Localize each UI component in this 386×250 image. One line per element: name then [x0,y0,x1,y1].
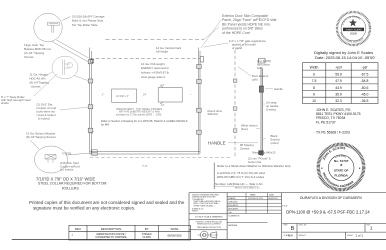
title block frame [189,193,386,240]
svg-text:of the HDPE Core: of the HDPE Core [222,31,250,35]
title block sec1: tolerance notes [192,194,221,212]
REV table [69,225,191,240]
elevation: top dashed line (door top) [90,58,200,60]
svg-text:WEIGHT:: WEIGHT: [299,235,307,237]
leader: steel roller to detail [34,74,57,96]
elevation: right track (double line) [198,48,200,154]
note: lift strap [266,100,279,111]
svg-text:& swing: & swing [266,107,276,111]
note: tapping screws [240,143,254,151]
svg-text:Number: HANDLE HC — Side 1 AC: Number: HANDLE HC — Side 1 AC [215,182,264,186]
svg-text:06/09/2025: 06/09/2025 [268,198,277,200]
section bottom bar dark [258,150,263,155]
svg-text:(p/b): (p/b) [252,78,258,82]
note: hinges [29,73,49,89]
svg-text:+psf: +psf [335,65,342,69]
svg-text:-67.5: -67.5 [361,72,369,76]
svg-text:7/16"ID: 7/16"ID [62,152,71,156]
svg-text:1": 1" [102,94,104,97]
svg-text:Screws: Screws [24,55,34,59]
svg-text:ENG APPR.: ENG APPR. [228,204,239,207]
svg-text:& locked): & locked) [38,117,50,121]
svg-text:VIEWED AS NON-CURRENT: VIEWED AS NON-CURRENT [197,223,222,226]
svg-text:10: 10 [312,99,316,103]
svg-text:OLSON: OLSON [143,236,152,239]
svg-text:9: 9 [313,93,315,97]
svg-text:JOHN E. SCATES: JOHN E. SCATES [345,28,362,31]
note: stud coupler interior [60,161,80,172]
section view: door edge line [259,59,266,157]
svg-text:STEVEN OLSON: STEVEN OLSON [248,198,263,200]
svg-text:(liner): (liner) [241,127,248,131]
svg-text:THIRD ANGLE PROJECTION: THIRD ANGLE PROJECTION [197,226,222,229]
leader: angle brace [204,42,247,50]
svg-text:-50.6: -50.6 [361,86,369,90]
note: pull-weight block [141,62,169,79]
svg-text:*MH mm with it 4/8/25 in 2.2: *MH mm with it 4/8/25 in 2.2 [235,186,261,189]
note: steel roller [1,95,31,105]
hinges on left track [88,60,93,132]
note: stud couplers [37,103,57,121]
note: angle brace [229,39,266,50]
svg-text:Screws: Screws [240,147,250,151]
svg-text:B: B [291,226,295,232]
note: carriage bolts (top) [72,15,105,27]
window rect R2 [158,86,182,105]
note: refer to section 2 [101,119,188,126]
svg-text:DO NOT SCALE DRAWING: DO NOT SCALE DRAWING [195,216,223,219]
svg-text:REV: REV [75,227,81,231]
svg-text:-36.5: -36.5 [361,99,369,103]
svg-text:CHECKED: CHECKED [228,202,238,204]
window rect R1 [112,89,137,102]
svg-text:12": 12" [161,84,165,87]
svg-text:TITLE:: TITLE: [282,205,288,207]
svg-text:47.9: 47.9 [335,79,342,83]
svg-text:COMMENTS:: COMMENTS: [228,216,240,218]
svg-text:1 of 1: 1 of 1 [356,234,364,238]
pressure table [303,63,379,104]
svg-text:insulated to 3.75in panels (EP: insulated to 3.75in panels (EPS ... C45) [116,112,162,116]
svg-text:56308: 56308 [350,33,357,36]
svg-text:full height: full height [156,49,168,53]
svg-text:BY: BY [145,227,149,231]
svg-text:Handle: Handle [274,87,283,91]
section: torsion marks on dashed line [233,79,237,132]
note: vertical track full height [156,46,182,53]
svg-text:940x13+: 940x13+ [208,112,219,116]
detail bubble D1b (roller hinge detail) [42,56,92,82]
note: exterior door skin composite [222,14,277,35]
svg-text:Width: Width [310,65,319,69]
svg-text:32.3: 32.3 [335,99,342,103]
svg-text:24": 24" [143,94,147,97]
svg-text:FLORIDA: FLORIDA [335,174,349,178]
svg-text:06/09/2025: 06/09/2025 [168,234,182,238]
svg-text:Wear Strip 940x13: Wear Strip 940x13 [252,151,276,155]
svg-text:7.5: 7.5 [312,79,317,83]
address block [316,108,361,125]
svg-text:shafts: shafts [1,101,9,105]
svg-text:12": 12" [161,104,165,107]
note: black exterior [271,134,281,145]
dashed floor line extending right [90,157,232,159]
svg-text:bolts: bolts [257,66,264,70]
svg-text:No. 51737: No. 51737 [334,159,349,163]
svg-text:7'-0": 7'-0" [142,164,148,168]
elevation: bottom bar double line [90,152,200,154]
svg-text:59.9: 59.9 [335,72,342,76]
svg-text:Refer to a Wind-down Washer to: Refer to a Wind-down Washer to Window Wa… [217,164,291,168]
digitally signed text [314,50,375,60]
bottom bracket part at left track bottom [92,150,97,156]
svg-text:SHEET: SHEET [347,235,354,237]
svg-text:Per Top Roller Slide: Per Top Roller Slide [72,23,98,27]
star [349,19,357,27]
note: torsion bolts [257,59,271,70]
note: insufficient block [116,107,162,117]
printed copies disclaimer [29,200,185,210]
section: handle box [259,86,263,92]
svg-text:NAME: NAME [250,194,256,197]
title block sec2: name/date rows [227,193,281,223]
svg-text:DESCRIPTION: DESCRIPTION [101,227,122,231]
svg-text:6: 6 [313,72,315,76]
svg-text:DWG. NO.: DWG. NO. [299,224,308,226]
svg-text:44.9: 44.9 [335,86,342,90]
note: steel collar (large) [36,177,107,191]
svg-text:STEEL COLLAR REQUIRED FOR BOTT: STEEL COLLAR REQUIRED FOR BOTTOM [38,182,107,186]
note: bottom bar [248,151,276,164]
svg-text:THREE PLACE DECIMAL ±: THREE PLACE DECIMAL ± [194,204,215,207]
TX seal [337,12,370,45]
svg-text:STATE OF: STATE OF [334,168,349,172]
elevation view: header dashed line [106,39,205,41]
note: white interior [241,124,258,132]
svg-text:subract +4.5%/9.87 lb: subract +4.5%/9.87 lb [141,71,169,75]
leader: door skin to panel [201,20,221,48]
svg-text:CONVERTED TO ONSHAPE: CONVERTED TO ONSHAPE [95,236,127,239]
elevation: left track (double line) [90,48,92,154]
svg-text:8: 8 [313,86,315,90]
svg-text:Q.A.: Q.A. [228,211,232,214]
svg-text:FL PE 51737: FL PE 51737 [316,120,336,124]
svg-text:(other): (other) [271,141,279,145]
sheet bottom border [12,238,386,240]
svg-text:MFG APPR.: MFG APPR. [228,208,239,211]
FL seal [318,144,363,189]
svg-text:MATERIAL: MATERIAL [228,224,237,227]
svg-text:Screws: Screws [31,85,41,89]
note: mount dims [208,109,223,116]
detail bubble D2 (bottom collar) [30,140,91,173]
svg-text:FINISH:: FINISH: [192,211,199,213]
section view: dashed track line [234,50,236,158]
svg-text:Date: 2025.06.15 14:04:10 -05': Date: 2025.06.15 14:04:10 -05'00' [315,55,375,60]
note: top bracket [24,43,52,59]
svg-text:★: ★ [339,163,343,167]
detail bubble D1 (top bracket) [34,13,91,63]
svg-text:DATE: DATE [269,194,275,197]
svg-text:DURAFLEX A DIVISION OF DURASER: DURAFLEX A DIVISION OF DURASERV [300,196,363,200]
third angle projection symbol [198,231,218,239]
top bracket parts on tracks [91,57,204,63]
svg-text:for MH: for MH [101,122,109,126]
svg-text:HANDLE: HANDLE [208,141,226,146]
svg-text:N/A: N/A [288,234,293,238]
svg-text:DRAWN: DRAWN [228,197,236,200]
svg-text:Refer to Section 2 Drawing for: Refer to Section 2 Drawing for mm DPN #8… [101,119,188,123]
svg-text:ROLLERS: ROLLERS [62,186,79,190]
svg-text:DPN-1100 @ +59.9 & -67.5 PSF-F: DPN-1100 @ +59.9 & -67.5 PSF-FBC 2.17.24 [286,209,370,214]
leader: stud couplers to track [60,107,89,110]
svg-text:1: 1 [370,225,373,230]
svg-text:ENERGY assumed to: ENERGY assumed to [141,66,169,70]
notes block [213,163,215,190]
svg-text:39.9: 39.9 [335,93,342,97]
svg-text:DATE: DATE [171,227,179,231]
svg-text:-psf: -psf [362,65,368,69]
svg-text:TX PE 56308 / F-2203: TX PE 56308 / F-2203 [316,131,350,135]
svg-text:14 Ga. Pull-weight: 14 Ga. Pull-weight [141,62,165,66]
note: door exterior [252,74,269,82]
svg-text:-45.0: -45.0 [361,93,369,97]
svg-text:DPN-PD NBC IN (7' 1%) S-3 code: DPN-PD NBC IN (7' 1%) S-3 codes [217,175,265,179]
svg-text:signature must be verified on: signature must be verified on any electr… [33,205,135,210]
svg-text:wind gauge alarms: wind gauge alarms [141,75,166,79]
svg-text:(8) 1/4"Tapping Screws: (8) 1/4"Tapping Screws [26,135,56,139]
hinges on right track [197,65,202,135]
note: bottom bracket [26,131,56,139]
svg-text:22 3/16 x 3": 22 3/16 x 3" [116,95,129,98]
svg-text:& L interior: & L interior [60,168,73,172]
svg-text:-54.8: -54.8 [361,79,369,83]
